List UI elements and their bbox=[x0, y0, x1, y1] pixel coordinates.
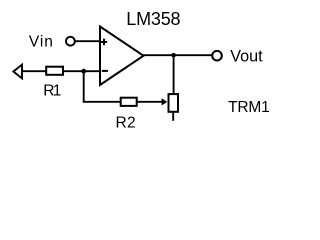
wire input port to R1 bbox=[21, 70, 47, 72]
input port triangle (left arrow) bbox=[13, 65, 22, 79]
wire feedback node down bbox=[83, 71, 85, 102]
node junction dot on output net bbox=[171, 53, 176, 58]
svg-text:TRM1: TRM1 bbox=[228, 99, 269, 116]
op-amp - input symbol bbox=[102, 70, 108, 72]
wire R2 to trimmer wiper arrow bbox=[137, 101, 163, 103]
wire op-amp output to Vout terminal bbox=[143, 54, 212, 56]
resistor R1 bbox=[46, 67, 63, 75]
svg-text:Vin: Vin bbox=[29, 33, 54, 50]
svg-text:R1: R1 bbox=[43, 83, 61, 100]
op-amp + input symbol bbox=[101, 39, 107, 46]
op-amp U1 triangle bbox=[100, 27, 144, 86]
terminal Vin circle bbox=[66, 37, 75, 46]
trimmer TRM1 wiper arrowhead bbox=[162, 98, 168, 105]
svg-text:LM358: LM358 bbox=[126, 9, 180, 29]
node junction dot on inverting net bbox=[81, 69, 86, 74]
resistor R2 bbox=[121, 98, 137, 106]
wire output junction down to trimmer top bbox=[173, 55, 175, 95]
svg-text:R2: R2 bbox=[116, 114, 136, 131]
terminal Vout circle bbox=[212, 51, 222, 61]
wire feedback bottom horizontal to R2 bbox=[83, 101, 121, 103]
wire trimmer bottom stub bbox=[172, 111, 174, 121]
wire R1 to op-amp - input bbox=[63, 70, 101, 72]
trimmer TRM1 body bbox=[169, 94, 179, 112]
wire Vin terminal to op-amp + input bbox=[75, 40, 101, 42]
svg-text:Vout: Vout bbox=[230, 48, 263, 66]
